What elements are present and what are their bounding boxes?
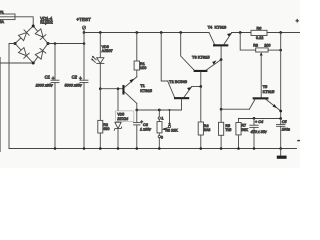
junction T2 collector bus	[160, 31, 163, 34]
wire bridge minus to bottom rail	[9, 44, 15, 149]
svg-text:6A8: 6A8	[204, 128, 211, 132]
junction T3 collector bus	[179, 31, 182, 34]
wire low output node horizontal	[239, 118, 281, 120]
svg-text:470 x 35v: 470 x 35v	[251, 130, 268, 134]
label - output	[297, 140, 300, 141]
svg-text:T4 KT819: T4 KT819	[208, 24, 227, 29]
wire output column	[280, 33, 282, 119]
junction C4 bottom	[253, 147, 256, 150]
diode VD2 (top-right arm)	[35, 29, 46, 40]
wire bridge plus output	[48, 43, 84, 45]
junction T1 base node	[99, 87, 102, 90]
junction R5 bottom	[220, 147, 223, 150]
resistor R6 0.22	[251, 26, 267, 40]
junction C3 node	[135, 109, 138, 112]
node bridge right	[47, 42, 50, 45]
wire T4 base node down	[220, 60, 222, 123]
svg-text:1: 1	[161, 116, 163, 120]
svg-text:100n: 100n	[282, 128, 290, 132]
wire T4 emitter rail	[232, 32, 301, 34]
label VD1-4 KC202	[40, 16, 53, 25]
label box VD5 BZX24	[116, 111, 134, 121]
svg-text:100: 100	[140, 66, 146, 70]
svg-text:+ C4: + C4	[255, 120, 263, 124]
svg-text:R3 22K: R3 22K	[165, 129, 178, 133]
svg-text:2: 2	[169, 122, 171, 126]
wire bottom ground rail	[9, 148, 297, 150]
junction R3 bottom	[158, 147, 161, 150]
svg-text:100: 100	[264, 44, 270, 48]
capacitor C2	[65, 33, 88, 149]
transistor T4 KT819	[208, 24, 232, 59]
svg-text:KT815: KT815	[140, 88, 153, 93]
svg-text:KT815: KT815	[263, 89, 276, 94]
svg-text:C2: C2	[72, 75, 78, 80]
diode VD3 (bottom-left arm)	[18, 48, 29, 59]
transistor T1 KT815	[122, 77, 152, 110]
capacitor C5 100n	[277, 119, 290, 149]
diode VD4 (bottom-right arm)	[35, 49, 46, 60]
junction T3 emitter / T4 base	[220, 58, 223, 61]
junction output drop on rail	[279, 31, 282, 34]
junction T5 collector node	[220, 108, 223, 111]
svg-text:+TEST: +TEST	[76, 17, 91, 22]
svg-text:КЦ202: КЦ202	[40, 20, 53, 25]
node bridge bottom	[32, 62, 35, 65]
junction zener top	[117, 87, 120, 90]
svg-text:0.22: 0.22	[256, 36, 263, 40]
svg-text:BZX24: BZX24	[117, 117, 128, 121]
svg-text:R6: R6	[257, 26, 262, 30]
svg-text:7k5: 7k5	[225, 128, 231, 132]
fuse F1	[0, 10, 15, 24]
svg-text:F1: F1	[0, 10, 4, 14]
capacitor C4	[250, 118, 268, 148]
svg-text:C5: C5	[282, 120, 287, 124]
resistor R4	[198, 87, 210, 149]
bridge rectifier VD1-4	[15, 26, 48, 63]
svg-text:1000 x35v: 1000 x35v	[36, 83, 54, 87]
svg-text:3: 3	[161, 136, 163, 140]
resistor R5	[219, 122, 232, 148]
resistor R1	[134, 33, 146, 77]
svg-text:+: +	[52, 76, 55, 82]
potentiometer R3 22K	[157, 110, 178, 149]
svg-text:VD5: VD5	[117, 113, 124, 117]
wire T3 collector	[181, 33, 194, 71]
junction +TEST bus	[83, 31, 86, 34]
capacitor C1	[36, 44, 59, 149]
svg-text:T3 KT815: T3 KT815	[192, 54, 210, 59]
junction T5 emitter	[279, 110, 282, 113]
wire fuse to bridge top	[15, 17, 33, 26]
junction C5 top	[279, 117, 282, 120]
terminal +TEST	[76, 17, 91, 32]
zener diode VD5	[114, 89, 121, 149]
wire T1 base	[100, 88, 122, 90]
junction R2 bottom	[99, 147, 102, 150]
junction R3 wiper node	[168, 109, 170, 111]
svg-text:C1: C1	[45, 75, 50, 80]
junction C1 top	[54, 42, 57, 45]
node bridge top	[32, 25, 35, 28]
wire AC2 input to bridge bottom	[0, 62, 33, 64]
resistor R7	[236, 118, 249, 148]
ground	[277, 149, 287, 159]
svg-text:T2 BC546: T2 BC546	[169, 79, 188, 84]
capacitor C3	[134, 110, 153, 149]
svg-text:5000 x35v: 5000 x35v	[65, 83, 83, 87]
svg-text:R8: R8	[253, 44, 258, 48]
transistor T2 BC546	[169, 79, 201, 110]
svg-text:56K: 56K	[241, 128, 248, 132]
svg-text:+: +	[79, 76, 82, 82]
transistor T3 KT815	[192, 54, 221, 86]
LED VD6	[91, 33, 113, 89]
junction C5 bottom	[279, 147, 282, 150]
junction R8 left on rail	[239, 31, 242, 34]
svg-text:+: +	[296, 19, 299, 25]
junction C2 bottom	[83, 147, 86, 150]
junction LED branch top	[99, 31, 102, 34]
node bridge left	[14, 42, 17, 45]
junction T2 emitter / R4 node	[199, 85, 202, 88]
junction C4 top	[253, 117, 256, 120]
junction C1 bottom	[54, 147, 57, 150]
wire T1 emitter node horizontal	[137, 109, 182, 111]
junction R3 pin1 node	[158, 109, 161, 112]
junction R1 bus	[135, 31, 138, 34]
junction C2 top	[83, 42, 86, 45]
diode VD1 (top-left arm)	[18, 30, 29, 41]
junction C3 bottom	[136, 147, 139, 150]
svg-text:1 x35v: 1 x35v	[140, 128, 152, 132]
junction R7 bottom	[237, 147, 240, 150]
junction R4 bottom	[200, 147, 203, 150]
wire top bus	[84, 32, 209, 34]
svg-text:680: 680	[103, 127, 109, 131]
resistor R2	[98, 89, 110, 149]
svg-text:АЛ307: АЛ307	[102, 49, 113, 53]
junction R8 right	[279, 49, 282, 52]
transistor T5 KT815	[221, 84, 281, 111]
junction VD5 bottom	[117, 147, 120, 150]
scan edge artifact	[0, 57, 2, 152]
svg-text:5A: 5A	[0, 20, 4, 24]
wire T2 collector	[161, 33, 174, 98]
potentiometer R8 100	[240, 33, 281, 98]
